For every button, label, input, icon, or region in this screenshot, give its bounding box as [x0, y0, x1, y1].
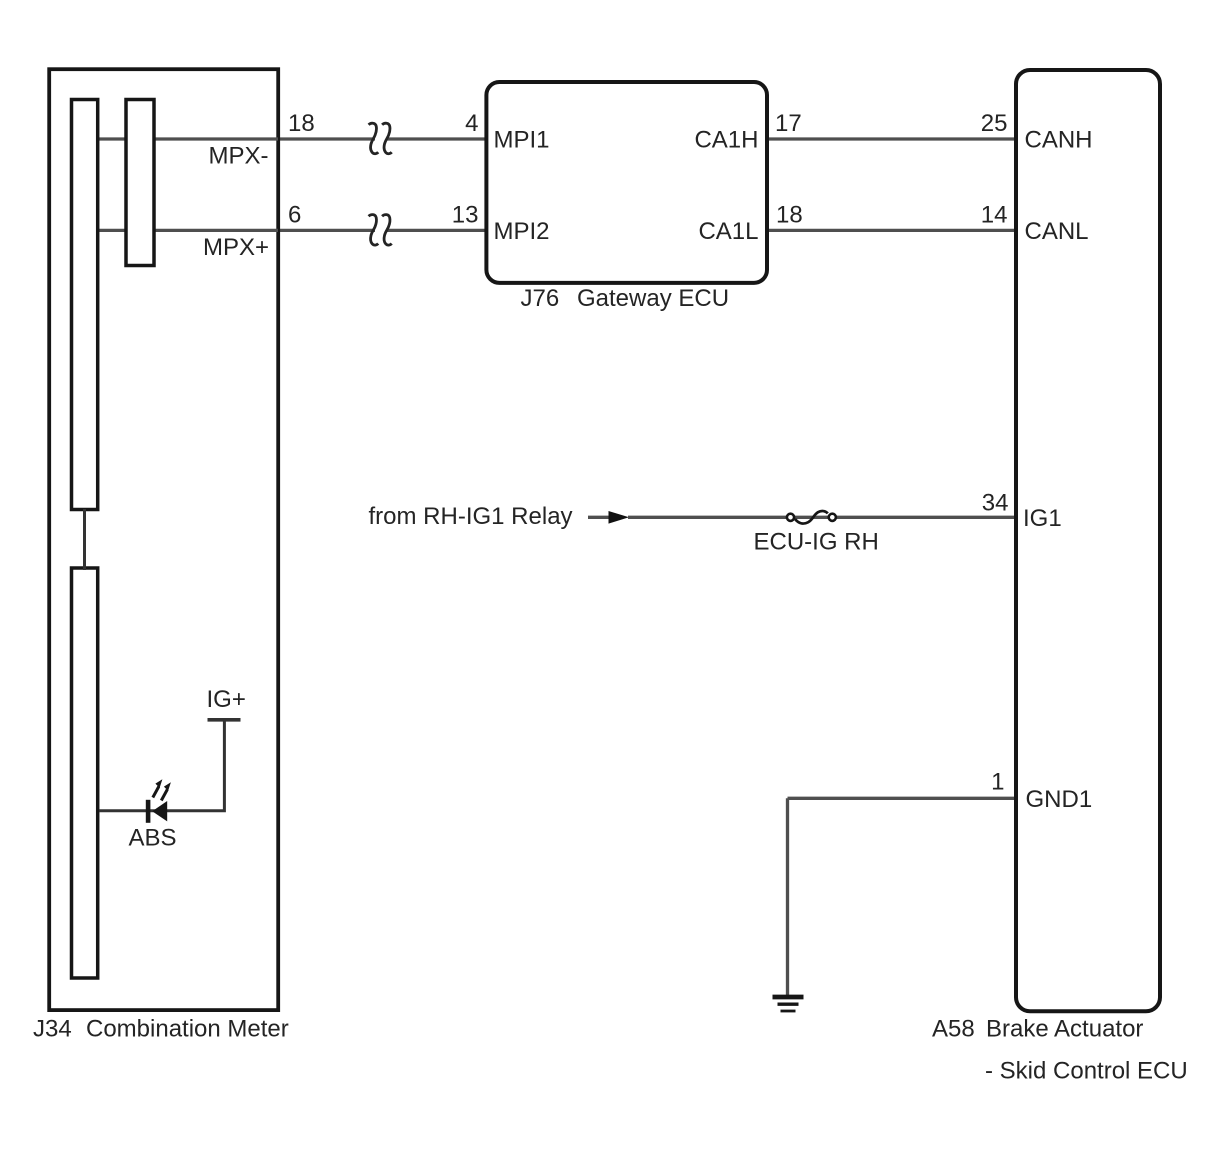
svg-text:18: 18 — [288, 110, 315, 137]
ground symbol bar 1 — [773, 995, 804, 1000]
svg-text:4: 4 — [465, 110, 478, 137]
svg-text:17: 17 — [775, 110, 802, 137]
wire CA1H to CANH — [766, 137, 1016, 140]
svg-text:14: 14 — [981, 201, 1008, 228]
wire CA1L to CANL — [766, 229, 1016, 232]
break mark 1 on MPX- wire — [369, 123, 379, 154]
svg-text:IG+: IG+ — [207, 686, 246, 713]
svg-text:13: 13 — [452, 201, 479, 228]
fuse ECU-IG RH left terminal — [787, 514, 794, 521]
wire into arrow — [588, 516, 610, 519]
svg-text:MPI2: MPI2 — [494, 218, 550, 245]
wire linking connector bars — [83, 509, 86, 570]
LED emission arrow 1 — [153, 787, 159, 798]
svg-text:MPX+: MPX+ — [203, 234, 269, 261]
brake actuator A58 block — [1016, 70, 1160, 1011]
fuse element curve — [795, 511, 828, 524]
wire MPX- inside J34 — [99, 137, 278, 140]
break mark 2 on MPX+ wire — [382, 215, 392, 246]
svg-text:18: 18 — [776, 201, 803, 228]
wire MPX+ (J34 to break) — [99, 229, 375, 232]
LED ABS triangle — [152, 801, 167, 821]
svg-text:GND1: GND1 — [1026, 786, 1093, 813]
svg-text:25: 25 — [981, 110, 1008, 137]
svg-text:CANL: CANL — [1025, 218, 1089, 245]
svg-text:34: 34 — [982, 489, 1009, 516]
wire IG1 (arrow to A58) — [628, 516, 1016, 519]
connector bar upper (J34 internal) — [72, 100, 98, 510]
wire MPX+ (break to J76 MPI2) — [388, 229, 488, 232]
wire GND1 horizontal — [788, 797, 1017, 800]
connector block J34 Combination Meter — [49, 69, 278, 1010]
svg-text:CA1L: CA1L — [698, 218, 758, 245]
gateway ECU J76 block — [486, 82, 767, 283]
svg-text:- Skid Control ECU: - Skid Control ECU — [985, 1058, 1188, 1085]
wire GND1 vertical drop — [786, 798, 789, 995]
svg-text:MPI1: MPI1 — [494, 127, 550, 154]
svg-text:CANH: CANH — [1025, 127, 1093, 154]
svg-text:Brake Actuator: Brake Actuator — [986, 1016, 1143, 1043]
svg-text:Combination Meter: Combination Meter — [86, 1016, 289, 1043]
svg-text:1: 1 — [991, 768, 1004, 795]
connector B (J34 pin header) — [126, 100, 154, 266]
wire MPX- (break to J76 MPI1) — [388, 137, 488, 140]
svg-text:6: 6 — [288, 201, 301, 228]
power terminal IG+ bar — [208, 718, 241, 722]
wire MPX+ inside J34 — [99, 229, 278, 232]
LED emission arrow 2 — [161, 790, 167, 801]
svg-text:ABS: ABS — [129, 825, 177, 852]
connector bar lower (J34 internal) — [72, 568, 98, 978]
svg-text:from RH-IG1 Relay: from RH-IG1 Relay — [369, 503, 573, 530]
svg-text:ECU-IG RH: ECU-IG RH — [754, 528, 879, 555]
svg-text:J34: J34 — [33, 1016, 72, 1043]
svg-text:A58: A58 — [932, 1016, 975, 1043]
wire MPX- (J34 to break) — [99, 137, 375, 140]
svg-text:CA1H: CA1H — [694, 127, 758, 154]
svg-text:Gateway ECU: Gateway ECU — [577, 285, 729, 312]
LED ABS cathode bar — [146, 800, 151, 823]
svg-text:J76: J76 — [521, 285, 560, 312]
fuse ECU-IG RH right terminal — [829, 514, 836, 521]
arrow head (feed direction) — [609, 511, 630, 524]
break mark 2 on MPX- wire — [382, 123, 392, 154]
ground symbol bar 2 — [778, 1003, 799, 1006]
svg-text:MPX-: MPX- — [209, 143, 269, 170]
svg-text:IG1: IG1 — [1023, 505, 1062, 532]
ground symbol bar 3 — [781, 1010, 796, 1013]
wire IG+ to ABS lamp — [99, 721, 224, 811]
break mark 1 on MPX+ wire — [369, 215, 379, 246]
